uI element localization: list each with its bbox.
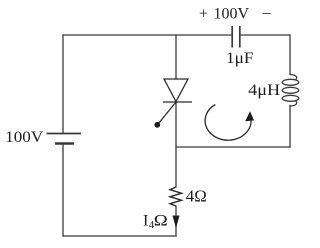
wire left lower (battery - to bottom node) <box>62 144 64 237</box>
svg-text:+: + <box>199 6 208 23</box>
wire bottom <box>63 235 176 237</box>
svg-text:Ω: Ω <box>154 213 168 230</box>
inductor L1 (4uH coil) <box>282 75 299 107</box>
wire top-right (capacitor to inductor) <box>240 34 290 36</box>
battery B1 (100V source) <box>47 134 82 144</box>
wire left upper (top node to battery +) <box>62 35 64 133</box>
wire resistor to bottom <box>175 206 177 236</box>
thyristor SCR1 triangle (anode) <box>159 79 193 124</box>
resistor R1 zigzag 4 ohm <box>170 187 182 206</box>
thyristor gate terminal dot <box>154 122 160 128</box>
loop arrow head <box>245 111 254 121</box>
svg-text:100V: 100V <box>5 129 43 146</box>
wire SCR cathode to resistor (through node B junction at y=147) <box>175 102 177 187</box>
wire inner bottom (SCR cathode node to inductor) <box>176 146 290 148</box>
wire top-left (battery + to capacitor) <box>63 34 232 36</box>
wire right lower (inductor bottom to node B) <box>289 106 291 148</box>
thyristor gate lead <box>159 102 177 124</box>
wire SCR anode <box>175 35 177 79</box>
wire right upper (capacitor to inductor top) <box>289 35 291 75</box>
svg-text:4Ω: 4Ω <box>186 186 207 205</box>
svg-text:4μH: 4μH <box>248 82 280 99</box>
svg-text:100V: 100V <box>214 6 250 23</box>
svg-text:1μF: 1μF <box>226 50 254 67</box>
svg-text:I: I <box>143 213 148 230</box>
current arrow I(4ohm) head <box>173 216 180 229</box>
thyristor cathode bar <box>163 101 192 103</box>
capacitor C1 plates <box>232 26 240 48</box>
loop current circular arrow <box>205 105 251 141</box>
svg-text:–: – <box>262 5 272 22</box>
